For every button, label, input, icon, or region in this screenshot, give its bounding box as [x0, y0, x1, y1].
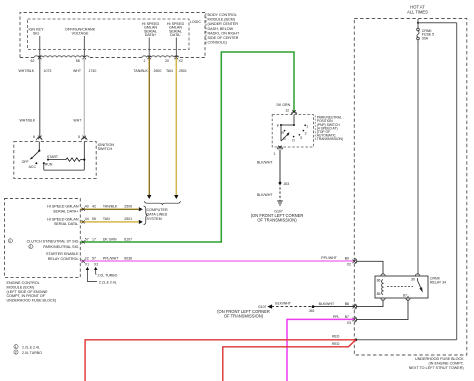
- fuse CRNK FUSE 5 30A: [417, 28, 420, 31]
- wire TAN 2501 BCM down to data lines: [175, 58, 177, 197]
- svg-text:TAN: TAN: [103, 217, 110, 221]
- svg-text:2.0L TURBO: 2.0L TURBO: [98, 273, 118, 277]
- engine control module ECM dashed box: [5, 199, 81, 278]
- svg-text:MODULE (BCM): MODULE (BCM): [208, 18, 235, 22]
- ground G107: [277, 201, 283, 205]
- svg-text:1740: 1740: [89, 69, 97, 73]
- svg-text:2: 2: [15, 351, 17, 355]
- svg-text:BLK/WHT: BLK/WHT: [257, 193, 273, 197]
- svg-text:42: 42: [92, 205, 96, 209]
- svg-text:OF TRANSMISSION): OF TRANSMISSION): [257, 218, 297, 223]
- svg-text:1: 1: [306, 124, 308, 128]
- svg-text:WHT/BLK: WHT/BLK: [19, 69, 35, 73]
- wire BLK/WHT relay 85 to ground: [313, 306, 354, 308]
- svg-text:CLUTCH ST/NEUTRAL ST SIG: CLUTCH ST/NEUTRAL ST SIG: [27, 239, 79, 243]
- svg-text:PARK/NEUTRAL SIG: PARK/NEUTRAL SIG: [43, 245, 78, 249]
- svg-text:WHT/BLK: WHT/BLK: [20, 118, 36, 122]
- svg-text:(LEFT SIDE OF ENGINE: (LEFT SIDE OF ENGINE: [7, 290, 49, 294]
- battery feed wire: [356, 19, 457, 340]
- svg-text:J63: J63: [309, 309, 315, 313]
- relay pin 85: [381, 298, 385, 300]
- svg-text:DASH, BELOW: DASH, BELOW: [208, 27, 234, 31]
- svg-text:PPL: PPL: [333, 315, 340, 319]
- svg-text:BODY CONTROL: BODY CONTROL: [208, 13, 237, 17]
- wire PPL/WHT 6036 ECM to underhood fuse block: [80, 260, 354, 262]
- brace joining data line arrows: [144, 206, 148, 225]
- svg-text:STARTER ENABLE: STARTER ENABLE: [46, 252, 79, 256]
- svg-text:RUN: RUN: [45, 163, 53, 167]
- lever to OFF: [31, 151, 39, 159]
- svg-text:X2: X2: [347, 263, 351, 267]
- svg-text:12: 12: [285, 108, 289, 112]
- svg-text:MODULE (ECM): MODULE (ECM): [7, 285, 34, 289]
- wire RED battery feed 2: [223, 340, 356, 381]
- svg-text:TAN/BLK: TAN/BLK: [103, 205, 118, 209]
- svg-text:OF TRANSMISSION): OF TRANSMISSION): [224, 314, 264, 319]
- svg-text:TAN/BLK: TAN/BLK: [134, 69, 149, 73]
- wire relay 85 to B8: [356, 300, 383, 307]
- ECM description text: [7, 281, 57, 303]
- svg-text:LOGIC: LOGIC: [190, 20, 201, 24]
- svg-text:RED: RED: [332, 342, 340, 346]
- arrowhead TAN/BLK: [147, 195, 151, 199]
- svg-text:(UNDER CENTER: (UNDER CENTER: [208, 22, 239, 26]
- svg-text:1: 1: [15, 345, 17, 349]
- svg-text:RELAY 34: RELAY 34: [430, 280, 446, 284]
- svg-text:WHT: WHT: [73, 69, 82, 73]
- svg-text:DATA LINES: DATA LINES: [147, 212, 168, 216]
- svg-text:X3: X3: [347, 321, 351, 325]
- PNP description text: [317, 116, 343, 142]
- svg-text:SERIAL DATA-: SERIAL DATA-: [54, 222, 79, 226]
- junction node battery feed: [354, 338, 357, 341]
- svg-text:SERIAL DATA+: SERIAL DATA+: [53, 210, 78, 214]
- contact dots: [38, 150, 40, 152]
- svg-text:RED: RED: [332, 334, 340, 338]
- BCM description text: [208, 13, 241, 45]
- svg-text:UNDERHOOD FUSE BLOCK: UNDERHOOD FUSE BLOCK: [415, 357, 464, 361]
- svg-text:B8: B8: [345, 302, 349, 306]
- svg-text:57: 57: [92, 257, 96, 261]
- svg-text:ACC: ACC: [29, 165, 37, 169]
- svg-text:SYSTEM: SYSTEM: [147, 217, 162, 221]
- svg-text:DK GRN: DK GRN: [103, 237, 117, 241]
- svg-text:57: 57: [85, 237, 89, 241]
- splice J63: [312, 305, 315, 308]
- svg-text:2.2L & 2.4L: 2.2L & 2.4L: [99, 281, 117, 285]
- relay actuation dashed link: [387, 286, 413, 288]
- PNP internals: [281, 115, 294, 141]
- PNP bottom pin 1: [277, 147, 283, 150]
- svg-text:20: 20: [165, 59, 169, 63]
- svg-text:87: 87: [403, 293, 407, 297]
- wire TAN/BLK 2500 ECM to data lines: [80, 208, 139, 210]
- svg-text:J63: J63: [283, 182, 289, 186]
- svg-text:30: 30: [411, 277, 415, 281]
- svg-text:TAN: TAN: [166, 69, 173, 73]
- svg-text:40: 40: [85, 205, 89, 209]
- svg-text:CONSOLE): CONSOLE): [208, 41, 227, 45]
- svg-text:2500: 2500: [154, 69, 162, 73]
- svg-text:SIG: SIG: [33, 32, 39, 36]
- wire BLK/WHT PNP to splice: [279, 150, 281, 184]
- PNP description dashed bracket: [314, 116, 316, 141]
- resistor in START feed: [66, 158, 84, 162]
- wire fuse to relay pin 30: [417, 40, 419, 275]
- svg-text:2500: 2500: [124, 205, 132, 209]
- underhood fuse block dashed box: [354, 19, 467, 356]
- svg-text:TRANSMISSION): TRANSMISSION): [317, 137, 343, 141]
- svg-text:6036: 6036: [124, 257, 132, 261]
- relay pin 30: [415, 274, 419, 276]
- relay pin 86: [381, 274, 385, 276]
- wire BLK/WHT dashed to G107 reference: [272, 306, 314, 308]
- underhood fuse block description: [409, 357, 464, 370]
- svg-text:17: 17: [92, 237, 96, 241]
- svg-text:6107: 6107: [124, 237, 132, 241]
- svg-text:1073: 1073: [44, 69, 52, 73]
- park/neutral position switch dashed box: [272, 115, 313, 147]
- svg-text:X1: X1: [85, 263, 89, 267]
- wire PPL relay 87 to starter: [287, 319, 354, 381]
- ECM pin x-marks: [82, 208, 85, 264]
- arrows from ECM data wires: [139, 207, 143, 211]
- wire BLK/WHT splice to ground (unused dashed): [279, 183, 281, 201]
- relay switch contact: [417, 278, 419, 280]
- PNP contact dots P R N D 3 2 1: [284, 130, 286, 132]
- svg-text:22: 22: [85, 257, 89, 261]
- wire WHT 1740 BCM to ignition switch: [83, 58, 85, 138]
- node COMPUTER DATA LINES SYSTEM: [147, 208, 168, 221]
- svg-text:SWITCH: SWITCH: [98, 147, 113, 151]
- legend circled 2: 2.0L TURBO: [14, 350, 18, 354]
- svg-text:BLK/WHT: BLK/WHT: [275, 302, 291, 306]
- svg-text:UNDERHOOD FUSE BLOCK): UNDERHOOD FUSE BLOCK): [7, 299, 57, 303]
- svg-text:COMPT, IN FRONT OF: COMPT, IN FRONT OF: [7, 294, 46, 298]
- wire WHT/BLK 1073 BCM to ignition switch: [39, 58, 41, 138]
- wire B9 to relay 86: [356, 261, 383, 274]
- svg-text:3: 3: [300, 136, 302, 140]
- svg-text:ENGINE CONTROL: ENGINE CONTROL: [7, 281, 40, 285]
- BCM pin x-marks: [38, 56, 178, 59]
- svg-text:RADIO, ON RIGHT: RADIO, ON RIGHT: [208, 31, 241, 35]
- svg-text:B7: B7: [345, 315, 349, 319]
- svg-text:OFF: OFF: [22, 160, 29, 164]
- svg-text:2.0L TURBO: 2.0L TURBO: [22, 351, 42, 355]
- relay pin 87: [406, 298, 410, 300]
- svg-text:WHT: WHT: [73, 118, 82, 122]
- svg-text:BLK/WHT: BLK/WHT: [319, 302, 335, 306]
- svg-text:62: 62: [31, 59, 35, 63]
- BCM inner LOGIC dashed box: [28, 19, 190, 50]
- BCM description dashed bracket: [205, 13, 207, 44]
- svg-text:55: 55: [92, 217, 96, 221]
- svg-text:44: 44: [85, 217, 89, 221]
- svg-text:X2: X2: [94, 263, 98, 267]
- wire DK GRN 6107 ECM to PNP switch: [80, 52, 294, 242]
- X1 variant arrow to 2.2L & 2.4L: [87, 269, 97, 282]
- svg-text:PPL/WHT: PPL/WHT: [321, 256, 337, 260]
- relay coil: [382, 280, 383, 295]
- svg-text:HI SPEED GMLAN: HI SPEED GMLAN: [47, 205, 79, 209]
- arrowhead TAN: [174, 195, 178, 199]
- X2 variant arrow to 2.0L TURBO: [95, 269, 98, 275]
- splice J63: [279, 182, 282, 185]
- body control module BCM outer dashed box: [20, 13, 205, 58]
- svg-text:2: 2: [305, 131, 307, 135]
- brace under arrows: [144, 201, 180, 204]
- junction node: [417, 22, 419, 24]
- legend circled 1: 2.2L & 2.4L: [14, 345, 18, 349]
- svg-text:DATA-: DATA-: [170, 33, 181, 37]
- svg-text:BLK/WHT: BLK/WHT: [257, 160, 273, 164]
- svg-text:1: 1: [274, 152, 276, 156]
- relay CRNK RELAY 34 box: [375, 276, 428, 298]
- svg-text:IGNITION: IGNITION: [98, 143, 115, 147]
- svg-text:58: 58: [76, 59, 80, 63]
- svg-text:2: 2: [144, 59, 146, 63]
- svg-text:ALL TIMES: ALL TIMES: [407, 9, 428, 14]
- svg-text:5: 5: [78, 135, 80, 139]
- svg-text:DK GRN: DK GRN: [277, 103, 291, 107]
- svg-text:30A: 30A: [422, 36, 429, 40]
- wire TAN/BLK 2500 BCM down to data lines: [148, 58, 150, 197]
- svg-text:2501: 2501: [179, 69, 187, 73]
- BCM signal HI SPEED GMLAN SERIAL DATA-: [167, 22, 185, 37]
- wire TAN 2501 ECM to data lines: [80, 221, 139, 223]
- svg-text:6: 6: [33, 135, 35, 139]
- BCM connector scalloped edge: [34, 56, 89, 58]
- svg-text:2.2L & 2.4L: 2.2L & 2.4L: [22, 345, 40, 349]
- svg-text:RELAY CONTROL: RELAY CONTROL: [48, 257, 79, 261]
- svg-text:2501: 2501: [124, 217, 132, 221]
- svg-text:VOLTAGE: VOLTAGE: [72, 32, 89, 36]
- svg-text:HI SPEED GMLAN: HI SPEED GMLAN: [47, 217, 79, 221]
- svg-text:(IN ENGINE COMPT,: (IN ENGINE COMPT,: [429, 361, 464, 365]
- wire RED battery feed 1: [85, 340, 356, 381]
- svg-text:PPL/WHT: PPL/WHT: [103, 257, 119, 261]
- svg-text:85: 85: [377, 292, 381, 296]
- svg-text:SIDE OF CENTER: SIDE OF CENTER: [208, 36, 239, 40]
- svg-text:86: 86: [377, 279, 381, 283]
- svg-text:B9: B9: [345, 256, 349, 260]
- BCM internal stubs to connector: [40, 36, 177, 58]
- svg-text:DATA+: DATA+: [145, 33, 156, 37]
- BCM signal HI SPEED GMLAN SERIAL DATA+: [142, 22, 160, 37]
- wire relay 87 to B7: [356, 300, 408, 320]
- svg-text:COMPUTER: COMPUTER: [147, 208, 168, 212]
- ground reference arrow G107: [267, 304, 272, 308]
- svg-text:X2: X2: [179, 59, 183, 63]
- svg-text:START: START: [47, 155, 59, 159]
- ignition switch dashed box: [14, 142, 96, 179]
- svg-text:NEXT TO LEFT STRUT TOWER): NEXT TO LEFT STRUT TOWER): [409, 366, 464, 370]
- ignition switch internals: [31, 142, 84, 171]
